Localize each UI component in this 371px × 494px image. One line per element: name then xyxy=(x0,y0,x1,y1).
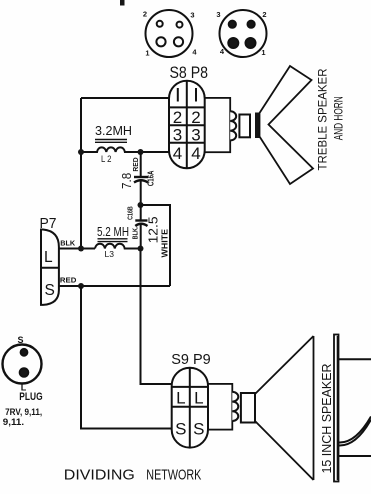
svg-text:5.2 MH: 5.2 MH xyxy=(97,225,129,239)
svg-text:RED: RED xyxy=(133,157,140,171)
basket curve xyxy=(339,417,371,446)
magnet (treble) xyxy=(239,115,250,138)
cone (woofer) xyxy=(255,336,314,480)
svg-text:RED: RED xyxy=(60,278,77,285)
svg-text:3.2MH: 3.2MH xyxy=(95,124,132,138)
junction: bus / L2 xyxy=(78,149,84,155)
svg-text:7.8: 7.8 xyxy=(120,173,134,189)
woofer driver body xyxy=(206,384,232,430)
junction: L3 / C16B / mid bus xyxy=(138,246,144,252)
svg-text:L 2: L 2 xyxy=(101,154,112,164)
svg-text:2: 2 xyxy=(173,108,182,127)
inductor L3 core xyxy=(98,239,128,242)
capacitor C16A xyxy=(134,152,148,205)
inductor L3 xyxy=(95,244,141,249)
wire branch to white lead xyxy=(141,205,171,286)
wire BLK: P7 L to L3 xyxy=(59,248,95,250)
frame bottom line xyxy=(339,455,371,457)
svg-text:S9 P9: S9 P9 xyxy=(171,351,211,368)
magnet (woofer) xyxy=(241,393,255,423)
svg-text:2: 2 xyxy=(143,10,147,19)
plug face P8 (pin view) xyxy=(220,10,267,57)
wire RED: P7 S to white branch xyxy=(59,285,170,287)
svg-text:4: 4 xyxy=(191,144,200,163)
voice coil (treble) xyxy=(230,111,236,140)
connector P7 body xyxy=(41,230,59,305)
wire lower-left bus to S9P9 S row xyxy=(81,286,174,429)
svg-text:AND HORN: AND HORN xyxy=(334,96,346,140)
connector S8P8 body xyxy=(169,81,205,169)
svg-text:C16A: C16A xyxy=(147,170,156,186)
plug face (bottom-left) xyxy=(3,345,42,384)
svg-text:1: 1 xyxy=(145,49,149,58)
svg-text:S8 P8: S8 P8 xyxy=(170,63,209,82)
frame top line xyxy=(339,358,371,360)
diaphragm bar (treble) xyxy=(255,113,260,139)
P7 L/S divider xyxy=(41,267,59,269)
voice coil (woofer) xyxy=(232,392,238,421)
stray mark top edge xyxy=(120,0,125,6)
S8P8 pin 1 right xyxy=(195,88,197,102)
junction: C16A / C16B / white branch xyxy=(138,202,144,208)
S8P8 pin 1 left xyxy=(177,88,179,102)
capacitor C16B xyxy=(135,205,147,249)
baffle board xyxy=(334,335,339,482)
svg-text:L: L xyxy=(194,389,203,408)
svg-text:2: 2 xyxy=(191,108,200,127)
junction: left bus / BLK wire xyxy=(78,246,84,252)
svg-text:4: 4 xyxy=(173,144,182,163)
svg-text:S: S xyxy=(193,420,204,439)
inductor L2 core xyxy=(95,140,127,143)
svg-text:12.5: 12.5 xyxy=(147,216,161,243)
svg-text:PLUG: PLUG xyxy=(19,391,42,403)
svg-text:L: L xyxy=(176,389,185,408)
svg-text:BLK.: BLK. xyxy=(131,226,140,239)
svg-text:BLK: BLK xyxy=(60,239,76,248)
connector S9P9 body xyxy=(172,368,208,448)
svg-text:9,11.: 9,11. xyxy=(3,417,24,428)
svg-text:1: 1 xyxy=(261,48,265,57)
svg-text:3: 3 xyxy=(190,11,194,20)
svg-text:DIVIDING: DIVIDING xyxy=(64,467,135,483)
wire left bus upper xyxy=(80,98,82,249)
svg-text:3: 3 xyxy=(173,126,182,145)
svg-text:S: S xyxy=(175,420,186,439)
inductor L2 xyxy=(81,147,172,152)
svg-text:2: 2 xyxy=(262,10,266,19)
svg-text:TREBLE SPEAKER: TREBLE SPEAKER xyxy=(316,68,330,170)
horn xyxy=(260,66,314,184)
svg-text:L3: L3 xyxy=(105,249,115,259)
junction: L2 out / C16A xyxy=(138,149,144,155)
svg-text:L: L xyxy=(44,249,53,266)
wire mid bus to S9P9 L row xyxy=(141,249,175,385)
svg-text:C16B: C16B xyxy=(125,206,134,220)
wire S8 pin1 row to left bus xyxy=(81,97,172,99)
svg-text:3: 3 xyxy=(216,10,220,19)
svg-text:WHITE: WHITE xyxy=(160,228,169,257)
svg-text:NETWORK: NETWORK xyxy=(146,467,201,483)
junction: RED / lower-left bus xyxy=(78,283,84,289)
svg-text:3: 3 xyxy=(191,126,200,145)
svg-text:4: 4 xyxy=(192,48,197,57)
svg-text:S: S xyxy=(45,282,55,299)
treble driver body xyxy=(203,98,230,152)
svg-text:15 INCH SPEAKER: 15 INCH SPEAKER xyxy=(319,364,334,474)
baffle shading xyxy=(337,336,339,480)
svg-text:S: S xyxy=(17,335,23,345)
socket face S8 (pin view) xyxy=(146,10,193,57)
